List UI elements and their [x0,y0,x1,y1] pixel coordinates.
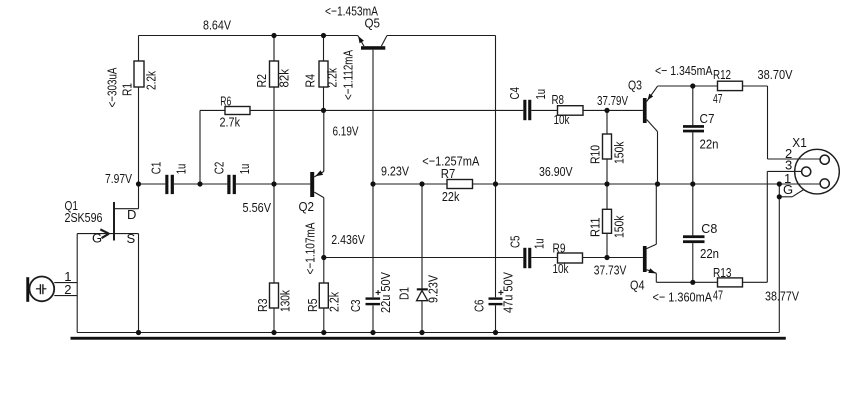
svg-text:47u 50V: 47u 50V [501,272,516,313]
svg-text:Q2: Q2 [299,199,315,214]
svg-text:C1: C1 [149,162,164,175]
svg-text:R2: R2 [254,74,269,88]
svg-text:22n: 22n [700,137,719,152]
svg-text:<− 1.345mA: <− 1.345mA [655,63,713,78]
svg-text:2SK596: 2SK596 [65,210,103,225]
svg-text:130k: 130k [278,290,293,312]
svg-text:1u: 1u [532,239,547,250]
svg-text:R6: R6 [220,94,231,109]
svg-text:2.7k: 2.7k [220,115,241,130]
svg-text:C8: C8 [701,221,717,236]
svg-text:1u: 1u [174,164,189,175]
svg-text:R7: R7 [441,166,456,181]
svg-text:47: 47 [713,287,723,302]
svg-text:R11: R11 [588,218,603,238]
svg-text:1u: 1u [237,164,252,175]
svg-text:10k: 10k [553,261,569,276]
svg-text:G: G [783,182,793,197]
svg-text:C6: C6 [472,300,487,313]
svg-text:R1: R1 [120,83,135,96]
svg-text:D: D [127,207,136,222]
svg-text:2.436V: 2.436V [331,232,365,247]
svg-text:R12: R12 [713,67,731,82]
svg-text:22u 50V: 22u 50V [378,272,393,313]
svg-text:S: S [127,231,136,246]
svg-text:X1: X1 [792,135,807,150]
svg-text:37.79V: 37.79V [597,93,628,108]
svg-text:<−1.112mA: <−1.112mA [341,50,356,100]
svg-text:Q5: Q5 [365,16,381,31]
svg-text:5.56V: 5.56V [243,200,272,215]
svg-text:6.19V: 6.19V [333,124,359,139]
svg-text:9.23V: 9.23V [426,275,441,303]
svg-text:<−303uA: <−303uA [105,67,120,107]
svg-text:R4: R4 [303,74,318,88]
svg-text:R3: R3 [255,299,270,313]
svg-text:150k: 150k [612,141,627,164]
svg-text:38.77V: 38.77V [765,289,799,304]
svg-text:Q4: Q4 [630,277,645,292]
svg-text:10k: 10k [554,112,570,127]
svg-text:8.64V: 8.64V [203,18,231,33]
svg-text:1u: 1u [533,89,548,100]
svg-text:9.23V: 9.23V [381,164,409,179]
svg-text:150k: 150k [612,215,627,238]
svg-text:R13: R13 [713,265,732,280]
svg-text:2.2k: 2.2k [327,292,342,312]
svg-text:47: 47 [713,91,723,106]
svg-text:G: G [92,231,102,246]
svg-text:C7: C7 [700,111,715,126]
svg-text:C2: C2 [212,162,227,175]
svg-text:R5: R5 [305,299,320,313]
svg-text:C4: C4 [507,87,522,100]
svg-text:22k: 22k [442,189,460,204]
svg-text:2.2k: 2.2k [144,71,159,90]
svg-text:<−1.107mA: <−1.107mA [303,222,318,274]
svg-text:2: 2 [64,282,71,297]
svg-text:R8: R8 [552,92,565,107]
svg-text:22n: 22n [700,246,719,261]
svg-text:38.70V: 38.70V [758,67,793,82]
svg-text:Q3: Q3 [628,77,642,92]
svg-text:C5: C5 [508,236,523,249]
svg-text:37.73V: 37.73V [594,262,627,277]
svg-text:36.90V: 36.90V [539,164,573,179]
svg-text:82k: 82k [277,69,292,88]
svg-text:R9: R9 [553,241,566,256]
svg-text:C3: C3 [348,300,363,313]
svg-text:2.2k: 2.2k [325,68,340,88]
svg-text:D1: D1 [397,287,412,300]
svg-text:R10: R10 [588,145,603,164]
svg-text:<− 1.360mA: <− 1.360mA [653,290,713,305]
svg-text:7.97V: 7.97V [105,171,132,186]
